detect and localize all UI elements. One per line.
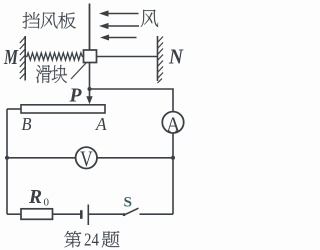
svg-text:P: P bbox=[68, 86, 82, 107]
svg-text:N: N bbox=[168, 45, 184, 69]
svg-text:B: B bbox=[22, 114, 32, 134]
svg-text:24: 24 bbox=[84, 230, 99, 250]
svg-text:A: A bbox=[166, 112, 181, 136]
svg-text:V: V bbox=[80, 146, 93, 171]
svg-text:S: S bbox=[124, 195, 133, 211]
svg-text:A: A bbox=[95, 114, 107, 134]
svg-text:M: M bbox=[3, 45, 19, 69]
svg-text:0: 0 bbox=[44, 197, 50, 209]
svg-text:R: R bbox=[28, 186, 42, 208]
